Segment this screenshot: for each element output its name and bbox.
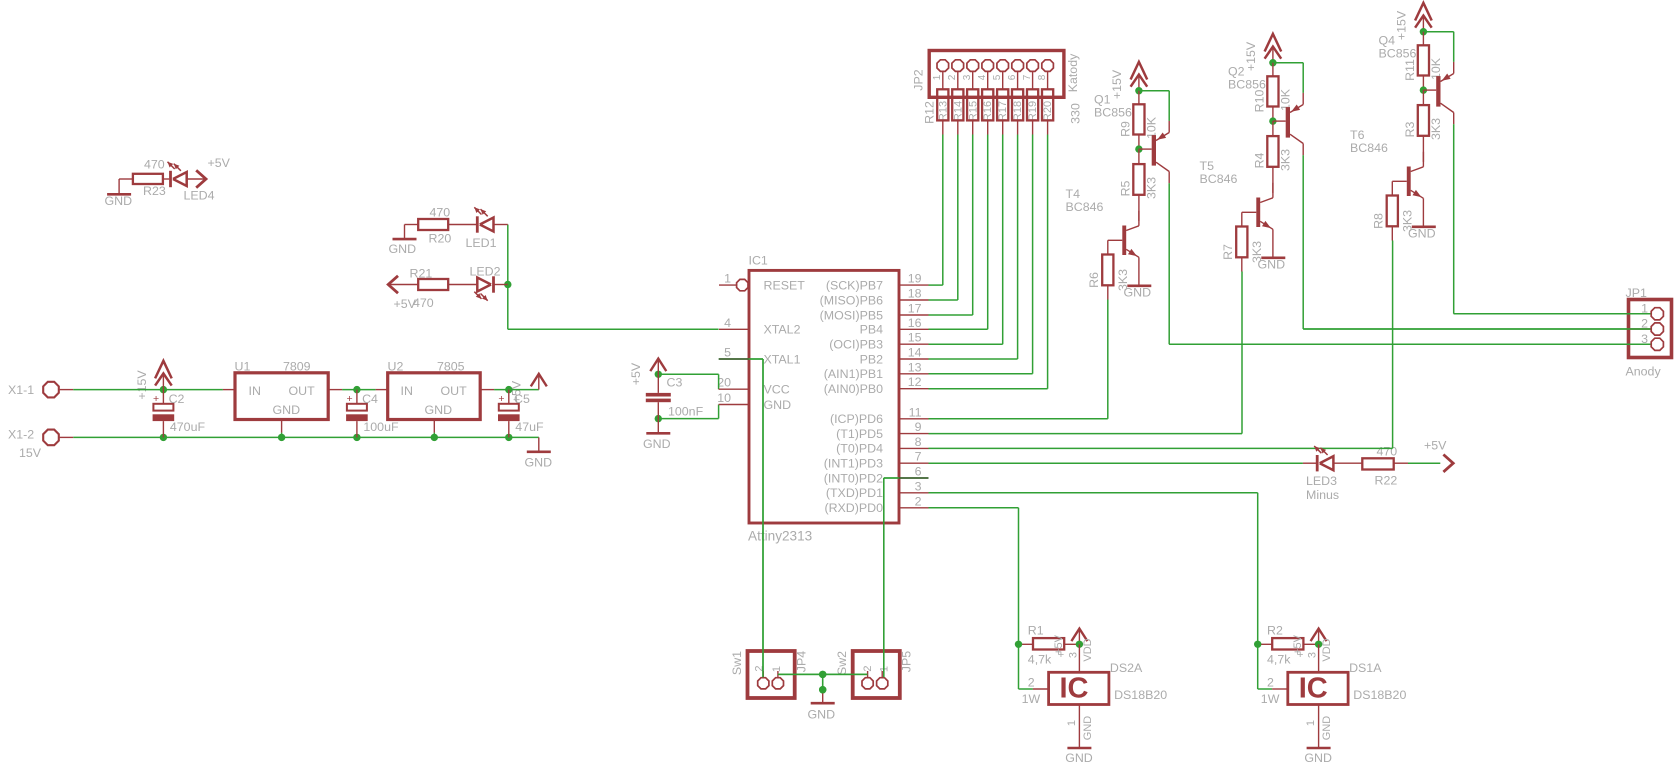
svg-text:OUT: OUT xyxy=(441,384,468,398)
svg-text:9: 9 xyxy=(915,420,922,434)
svg-text:470: 470 xyxy=(1377,445,1398,459)
svg-text:5: 5 xyxy=(724,346,731,360)
svg-text:19: 19 xyxy=(908,272,922,286)
svg-text:3K3: 3K3 xyxy=(1279,149,1293,171)
svg-text:+5V: +5V xyxy=(1424,439,1447,453)
svg-text:6: 6 xyxy=(1007,74,1018,80)
svg-text:GND: GND xyxy=(808,708,836,722)
svg-text:8: 8 xyxy=(1037,74,1048,80)
svg-text:330: 330 xyxy=(1069,103,1083,124)
svg-text:(T1)PD5: (T1)PD5 xyxy=(836,427,883,441)
svg-text:GND: GND xyxy=(425,403,453,417)
svg-text:(OCI)PB3: (OCI)PB3 xyxy=(829,338,883,352)
svg-text:Katody: Katody xyxy=(1066,53,1080,92)
svg-text:1: 1 xyxy=(1305,720,1317,726)
svg-text:C2: C2 xyxy=(169,392,185,406)
svg-text:R7: R7 xyxy=(1221,244,1235,260)
svg-text:1W: 1W xyxy=(1022,692,1041,706)
svg-text:R1: R1 xyxy=(1028,624,1044,638)
svg-text:C3: C3 xyxy=(667,376,683,390)
svg-text:XTAL1: XTAL1 xyxy=(764,352,801,366)
svg-text:OUT: OUT xyxy=(289,384,316,398)
svg-text:(INT0)PD2: (INT0)PD2 xyxy=(824,471,883,485)
svg-text:470uF: 470uF xyxy=(170,420,206,434)
svg-text:BC846: BC846 xyxy=(1350,141,1388,155)
svg-text:Sw1: Sw1 xyxy=(730,651,744,675)
svg-text:R12: R12 xyxy=(923,101,937,124)
svg-text:(ICP)PD6: (ICP)PD6 xyxy=(830,412,883,426)
svg-text:(MISO)PB6: (MISO)PB6 xyxy=(820,293,883,307)
svg-text:+: + xyxy=(498,393,504,405)
svg-text:LED2: LED2 xyxy=(470,265,501,279)
svg-text:3K3: 3K3 xyxy=(1145,177,1159,199)
svg-text:4: 4 xyxy=(724,316,731,330)
svg-text:T5: T5 xyxy=(1200,159,1215,173)
svg-text:470: 470 xyxy=(413,296,434,310)
svg-text:2: 2 xyxy=(1028,676,1035,690)
svg-text:JP2: JP2 xyxy=(912,69,926,90)
svg-text:3: 3 xyxy=(1067,652,1079,658)
svg-text:3: 3 xyxy=(962,74,973,80)
svg-text:GND: GND xyxy=(1321,716,1333,741)
svg-text:VCC: VCC xyxy=(764,383,790,397)
svg-text:Q1: Q1 xyxy=(1094,93,1111,107)
svg-text:DS1A: DS1A xyxy=(1349,661,1382,675)
svg-text:R6: R6 xyxy=(1087,272,1101,288)
svg-text:LED3: LED3 xyxy=(1306,474,1337,488)
svg-text:X1-1: X1-1 xyxy=(8,383,34,397)
svg-text:R20: R20 xyxy=(429,232,452,246)
svg-text:R2: R2 xyxy=(1267,624,1283,638)
svg-text:IC: IC xyxy=(1299,673,1328,705)
svg-text:R9: R9 xyxy=(1119,121,1133,137)
svg-text:10: 10 xyxy=(717,391,731,405)
svg-text:Attiny2313: Attiny2313 xyxy=(748,529,812,544)
svg-text:IC: IC xyxy=(1060,673,1089,705)
svg-text:+5V: +5V xyxy=(1292,634,1304,655)
svg-text:(AIN0)PB0: (AIN0)PB0 xyxy=(824,382,883,396)
svg-text:(T0)PD4: (T0)PD4 xyxy=(836,442,883,456)
svg-text:R5: R5 xyxy=(1119,180,1133,196)
svg-text:T6: T6 xyxy=(1350,128,1365,142)
svg-text:GND: GND xyxy=(1304,751,1332,765)
svg-text:BC856: BC856 xyxy=(1094,106,1132,120)
svg-text:+: + xyxy=(153,393,159,405)
svg-text:3: 3 xyxy=(915,479,922,493)
svg-text:15: 15 xyxy=(908,331,922,345)
svg-text:470: 470 xyxy=(430,206,451,220)
svg-text:3K3: 3K3 xyxy=(1429,118,1443,140)
svg-text:Q2: Q2 xyxy=(1228,65,1245,79)
svg-text:PB4: PB4 xyxy=(860,323,884,337)
svg-text:+: + xyxy=(347,393,353,405)
svg-text:+15V: +15V xyxy=(1395,10,1409,40)
svg-text:10K: 10K xyxy=(1279,88,1293,111)
svg-text:(INT1)PD3: (INT1)PD3 xyxy=(824,457,883,471)
svg-text:1: 1 xyxy=(771,666,783,672)
svg-text:DS18B20: DS18B20 xyxy=(1353,688,1406,702)
svg-text:11: 11 xyxy=(909,405,922,419)
svg-text:BC846: BC846 xyxy=(1066,200,1104,214)
svg-text:+5V: +5V xyxy=(1053,634,1065,655)
svg-text:13: 13 xyxy=(908,360,922,374)
svg-text:7: 7 xyxy=(1022,74,1033,80)
svg-text:IN: IN xyxy=(249,384,261,398)
svg-text:GND: GND xyxy=(389,242,417,256)
svg-text:12: 12 xyxy=(908,375,922,389)
svg-text:4,7k: 4,7k xyxy=(1267,653,1291,667)
svg-text:GND: GND xyxy=(525,456,553,470)
svg-text:GND: GND xyxy=(1082,716,1094,741)
svg-text:3: 3 xyxy=(1307,652,1319,658)
svg-text:IC1: IC1 xyxy=(749,254,768,268)
svg-text:Minus: Minus xyxy=(1306,488,1339,502)
svg-text:(RXD)PD0: (RXD)PD0 xyxy=(824,501,883,515)
svg-text:Sw2: Sw2 xyxy=(835,651,849,675)
svg-text:XTAL2: XTAL2 xyxy=(764,323,801,337)
svg-text:R11: R11 xyxy=(1403,59,1417,81)
svg-text:2: 2 xyxy=(862,665,874,671)
svg-text:DS2A: DS2A xyxy=(1110,661,1143,675)
svg-text:8: 8 xyxy=(915,435,922,449)
svg-text:(SCK)PB7: (SCK)PB7 xyxy=(826,278,883,292)
svg-text:+15V: +15V xyxy=(1244,41,1258,71)
svg-text:GND: GND xyxy=(643,437,671,451)
svg-text:BC856: BC856 xyxy=(1228,78,1266,92)
svg-text:IN: IN xyxy=(401,384,413,398)
svg-text:+5V: +5V xyxy=(629,362,643,385)
svg-text:R10: R10 xyxy=(1253,90,1267,113)
svg-text:BC846: BC846 xyxy=(1200,172,1238,186)
svg-text:(TXD)PD1: (TXD)PD1 xyxy=(826,486,883,500)
svg-text:RESET: RESET xyxy=(764,278,806,292)
svg-text:+15V: +15V xyxy=(1110,69,1124,99)
svg-text:R22: R22 xyxy=(1375,474,1398,488)
svg-text:16: 16 xyxy=(908,316,922,330)
svg-text:VDD: VDD xyxy=(1321,638,1333,661)
svg-text:R4: R4 xyxy=(1253,152,1267,168)
svg-text:18: 18 xyxy=(908,287,922,301)
svg-text:10K: 10K xyxy=(1145,116,1159,139)
svg-text:C5: C5 xyxy=(514,392,530,406)
svg-text:100uF: 100uF xyxy=(363,420,399,434)
svg-text:15V: 15V xyxy=(19,446,42,460)
svg-text:GND: GND xyxy=(1065,751,1093,765)
svg-text:17: 17 xyxy=(908,302,922,316)
svg-text:4: 4 xyxy=(977,74,988,80)
svg-text:1: 1 xyxy=(1066,720,1078,726)
svg-text:+5V: +5V xyxy=(208,156,231,170)
svg-text:T4: T4 xyxy=(1066,187,1081,201)
svg-text:2: 2 xyxy=(1267,676,1274,690)
svg-text:R8: R8 xyxy=(1372,213,1386,229)
svg-text:DS18B20: DS18B20 xyxy=(1114,688,1167,702)
svg-text:GND: GND xyxy=(1408,227,1436,241)
svg-text:100nF: 100nF xyxy=(668,405,704,419)
svg-text:PB2: PB2 xyxy=(860,352,884,366)
svg-text:5: 5 xyxy=(992,74,1003,80)
svg-text:7: 7 xyxy=(915,450,922,464)
svg-text:GND: GND xyxy=(105,194,133,208)
svg-text:R3: R3 xyxy=(1403,121,1417,137)
svg-text:2: 2 xyxy=(915,494,922,508)
svg-text:2: 2 xyxy=(947,74,958,80)
svg-text:1: 1 xyxy=(932,74,943,80)
svg-text:4,7k: 4,7k xyxy=(1028,653,1052,667)
svg-text:R23: R23 xyxy=(143,184,166,198)
svg-text:LED1: LED1 xyxy=(466,236,497,250)
svg-text:GND: GND xyxy=(764,398,792,412)
svg-text:2: 2 xyxy=(754,665,766,671)
svg-text:470: 470 xyxy=(144,158,165,172)
svg-text:LED4: LED4 xyxy=(184,189,215,203)
svg-text:GND: GND xyxy=(1124,286,1152,300)
svg-text:1: 1 xyxy=(724,272,731,286)
svg-text:6: 6 xyxy=(915,465,922,479)
svg-text:14: 14 xyxy=(908,346,922,360)
svg-text:+15V: +15V xyxy=(135,370,149,400)
svg-text:(MOSI)PB5: (MOSI)PB5 xyxy=(820,308,883,322)
svg-text:BC856: BC856 xyxy=(1379,47,1417,61)
svg-text:47uF: 47uF xyxy=(515,420,544,434)
svg-text:C4: C4 xyxy=(362,392,378,406)
svg-text:X1-2: X1-2 xyxy=(8,428,34,442)
svg-text:10K: 10K xyxy=(1429,57,1443,80)
svg-text:GND: GND xyxy=(1258,258,1286,272)
svg-text:Anody: Anody xyxy=(1626,365,1662,379)
svg-text:VDD: VDD xyxy=(1082,638,1094,661)
svg-text:Q4: Q4 xyxy=(1379,34,1396,48)
svg-text:GND: GND xyxy=(273,403,301,417)
svg-text:1W: 1W xyxy=(1261,692,1280,706)
svg-text:(AIN1)PB1: (AIN1)PB1 xyxy=(824,367,883,381)
